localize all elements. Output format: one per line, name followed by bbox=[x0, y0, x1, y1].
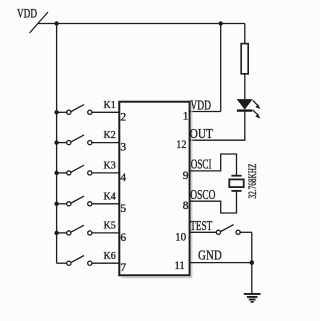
svg-text:VDD: VDD bbox=[190, 98, 211, 113]
svg-text:32.768KHZ: 32.768KHZ bbox=[245, 164, 259, 199]
wire top rail bbox=[39, 23, 245, 25]
svg-text:12: 12 bbox=[176, 139, 186, 151]
switch K5 bbox=[54, 220, 119, 236]
svg-text:K2: K2 bbox=[104, 129, 116, 141]
svg-text:K6: K6 bbox=[104, 250, 117, 262]
switch K2 bbox=[54, 129, 119, 145]
wire left bus vertical bbox=[56, 24, 58, 264]
wire pin11 GND bbox=[190, 262, 252, 264]
switch K4 bbox=[54, 190, 119, 206]
resistor R1 bbox=[241, 44, 248, 74]
switch K3 bbox=[54, 160, 119, 176]
junction left bus / top rail bbox=[54, 21, 58, 25]
svg-text:VDD: VDD bbox=[17, 5, 37, 20]
IC scan shadow bbox=[122, 104, 192, 278]
wire pin1 VDD bbox=[190, 111, 221, 113]
wire pin9 OSCI to crystal top bbox=[190, 154, 237, 175]
svg-text:K4: K4 bbox=[104, 190, 117, 202]
wire TEST switch to GND net bbox=[251, 232, 253, 262]
op IC U1 body bbox=[119, 102, 189, 276]
wire GND net to ground bbox=[251, 263, 253, 294]
wire pin10 TEST bbox=[190, 231, 217, 233]
switch K1 bbox=[54, 99, 119, 115]
svg-text:8: 8 bbox=[183, 200, 189, 212]
svg-text:9: 9 bbox=[183, 170, 189, 182]
svg-text:GND: GND bbox=[198, 248, 222, 263]
wire VDD-pin branch vertical bbox=[220, 24, 222, 112]
switch K6 bbox=[57, 250, 120, 266]
svg-text:10: 10 bbox=[175, 232, 186, 244]
wire top rail to resistor bbox=[244, 24, 246, 44]
crystal Y1 32.768KHZ bbox=[229, 164, 259, 199]
VDD rail slash bbox=[30, 12, 49, 33]
svg-text:1: 1 bbox=[183, 111, 189, 123]
svg-text:K1: K1 bbox=[104, 99, 116, 111]
svg-text:OUT: OUT bbox=[190, 127, 213, 142]
svg-text:K5: K5 bbox=[104, 220, 117, 232]
junction GND net bbox=[250, 260, 255, 265]
svg-text:K3: K3 bbox=[104, 160, 117, 172]
wire LED to pin12 OUT bbox=[190, 112, 245, 140]
junction VDD-pin branch / top rail bbox=[219, 21, 223, 25]
LED D1 bbox=[237, 100, 260, 118]
wire resistor to LED bbox=[244, 74, 246, 100]
wire pin8 OSCO to crystal bottom bbox=[190, 191, 237, 213]
switch S7 (TEST) bbox=[216, 225, 252, 235]
ground symbol bbox=[244, 294, 261, 302]
svg-text:11: 11 bbox=[175, 260, 185, 272]
